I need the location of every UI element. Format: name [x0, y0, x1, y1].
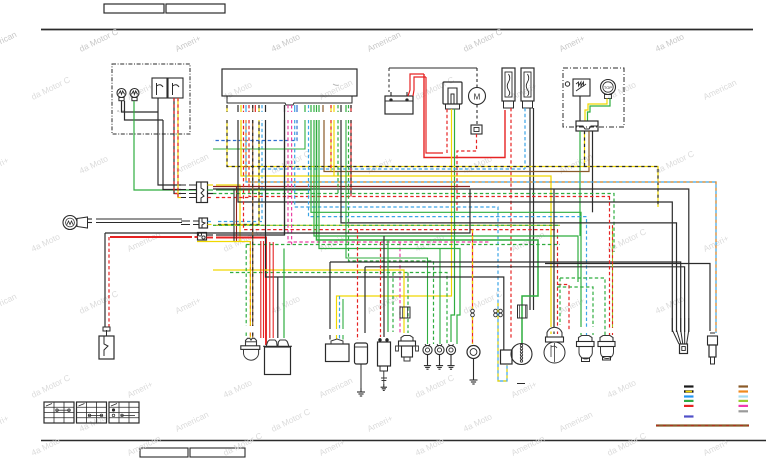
bus yellow-black: [227, 120, 658, 207]
svg-text:Ameri+: Ameri+: [557, 295, 586, 316]
bus green tail: [311, 120, 581, 335]
bus cyan tail: [309, 120, 587, 335]
fuse F1: [471, 125, 482, 134]
fuse holder FH1: [502, 68, 515, 108]
svg-text:Ameri+: Ameri+: [173, 33, 202, 54]
riser CDI green: [283, 249, 285, 339]
wire colour legend column 2: [739, 387, 749, 412]
flasher relay FR: [326, 339, 350, 362]
riser bulb3 olive: [612, 225, 614, 335]
svg-text:Ameri+: Ameri+: [173, 295, 202, 316]
wire unit green down: [579, 131, 581, 236]
wire lamp2 green: [134, 101, 197, 190]
indicator lamp L2: [130, 89, 139, 101]
wire relay yellow: [337, 109, 452, 340]
svg-text:da Motor C: da Motor C: [269, 406, 311, 433]
wire colour legend column 1: [684, 387, 694, 417]
CN2 yellow out: [208, 120, 260, 225]
bus yellow mid: [197, 241, 251, 243]
bus green big: [317, 120, 539, 344]
wire switch black b: [163, 120, 181, 190]
condenser ground: [357, 388, 365, 396]
wire unit brown down: [324, 120, 589, 172]
svg-text:4a Moto: 4a Moto: [269, 293, 301, 316]
ignition coil IC: [573, 79, 590, 96]
wire coil down black: [579, 96, 581, 121]
wire lamp yellow: [585, 99, 607, 122]
bus magenta long: [288, 120, 490, 242]
svg-text:da Motor C: da Motor C: [29, 74, 71, 101]
wire FH2 blue dash: [524, 108, 526, 169]
svg-text:da Motor C: da Motor C: [461, 26, 503, 53]
bus green B: [314, 120, 578, 282]
starter relay SR: [443, 82, 462, 109]
pilot lamp TOP: [601, 80, 616, 99]
meter unit: [511, 344, 532, 365]
svg-text:Ameri+: Ameri+: [557, 33, 586, 54]
connector CN2: [199, 218, 208, 228]
bus green grounds1: [346, 120, 428, 344]
svg-text:4a Moto: 4a Moto: [653, 31, 685, 54]
bus blue short: [213, 120, 297, 141]
main switch connector MS: [99, 327, 114, 359]
wire relay green: [451, 109, 455, 342]
wire switch black a: [157, 98, 159, 112]
svg-text:4a Moto: 4a Moto: [413, 435, 445, 458]
svg-text:American: American: [173, 151, 210, 176]
svg-text:da Motor C: da Motor C: [605, 226, 647, 253]
riser CDI red pair: [261, 241, 264, 338]
wire fuse red dash: [457, 134, 477, 212]
headlight HL: [63, 216, 88, 230]
svg-text:American: American: [317, 77, 354, 102]
svg-text:American: American: [0, 29, 18, 54]
fuse holder FH2: [521, 68, 534, 108]
wire horn cyan U: [498, 303, 507, 381]
horn bullet connectors: [494, 309, 503, 317]
bus green dash mid: [213, 194, 614, 253]
tail bulb B2: [544, 327, 565, 363]
coil2 plug tip: [381, 378, 387, 390]
bus yellow main: [241, 120, 551, 334]
riser CDI black: [277, 277, 279, 338]
riser condenser black: [364, 267, 366, 333]
bus dark red: [213, 187, 470, 242]
coil unit C2: [378, 338, 391, 378]
riser flasher cyan: [339, 296, 341, 340]
svg-text:da Motor C: da Motor C: [413, 372, 455, 399]
meter dash mark: [517, 383, 525, 385]
riser rk351: [350, 120, 352, 197]
bus black CDI: [266, 120, 504, 350]
bus green upper: [213, 120, 305, 149]
svg-text:4a Moto: 4a Moto: [221, 79, 253, 102]
condenser CD: [355, 343, 368, 388]
riser bulb1 brown: [252, 120, 254, 338]
CN3 left red: [110, 236, 198, 238]
riser gd338: [337, 120, 339, 194]
bus cyan-orange: [246, 120, 716, 333]
wire main switch red dash: [108, 237, 110, 327]
wire lamp1 black: [122, 101, 159, 112]
unit connector CN: [576, 121, 598, 131]
bulb B3: [577, 336, 595, 362]
sensor connector top: [400, 307, 410, 318]
label sw: [117, 108, 125, 113]
CN2 cyan out: [208, 120, 263, 222]
svg-text:American: American: [0, 291, 18, 316]
fan-out harness wires: [672, 318, 689, 344]
svg-text:American: American: [125, 433, 162, 458]
bus green grounds2: [349, 120, 434, 344]
pin table T3: [109, 402, 139, 423]
turn signal bulb B1: [241, 338, 260, 360]
bus red dash mid: [249, 120, 610, 197]
bus green grounds3: [439, 249, 441, 345]
svg-text:American: American: [557, 409, 594, 434]
svg-text:Ameri+: Ameri+: [509, 379, 538, 400]
CN3 right black: [207, 105, 285, 235]
switch housing box: [112, 64, 190, 134]
bus black fan5: [213, 189, 689, 332]
svg-text:4a Moto: 4a Moto: [605, 377, 637, 400]
wire lamp black 2: [125, 101, 164, 120]
CN3 left black: [107, 232, 198, 234]
riser CDI reds: [270, 242, 273, 338]
bottom rule: [41, 440, 766, 442]
svg-text:da Motor C: da Motor C: [221, 430, 263, 457]
bus blue dash horn: [295, 120, 498, 303]
svg-text:4a Moto: 4a Moto: [269, 31, 301, 54]
CN2 left stubs: [181, 221, 199, 225]
riser bulb2 black: [553, 189, 555, 334]
svg-text:da Motor C: da Motor C: [605, 430, 647, 457]
svg-text:4a Moto: 4a Moto: [29, 231, 61, 254]
ring terminal G1: [423, 344, 432, 369]
svg-text:Ameri+: Ameri+: [365, 155, 394, 176]
svg-text:4a Moto: 4a Moto: [29, 435, 61, 458]
svg-text:American: American: [701, 77, 738, 102]
connector CN1: [197, 182, 208, 203]
svg-text:American: American: [365, 29, 402, 54]
svg-text:Ameri+: Ameri+: [365, 413, 394, 434]
svg-text:Ameri+: Ameri+: [0, 155, 10, 176]
bus yellow low: [213, 270, 404, 333]
wire FH1 red dash: [510, 108, 512, 340]
bus black ignition: [105, 120, 470, 235]
ring terminal G3: [446, 344, 455, 369]
indicator lamp L1: [117, 89, 126, 101]
riser flasher black: [329, 262, 331, 340]
bus red dash low: [244, 120, 558, 334]
CN3 right red: [207, 238, 267, 346]
top rule: [41, 29, 753, 31]
wire headlight pair: [88, 219, 183, 223]
wire FH2 black pair: [530, 108, 534, 310]
main harness box: [222, 69, 357, 105]
svg-text:da Motor C: da Motor C: [221, 226, 263, 253]
bus green D: [319, 120, 460, 344]
wire unit yellow-black down: [584, 131, 586, 167]
riser bulb3 red: [609, 197, 611, 336]
riser ring main: [472, 230, 474, 344]
bus cyan fuse: [262, 168, 525, 170]
battery feed top line: [389, 68, 477, 92]
fuel pump unit FP: [396, 336, 419, 362]
coil terminal dot: [565, 82, 569, 86]
bus olive dash: [213, 224, 560, 226]
meter connector: [518, 305, 528, 318]
ignition unit box: [563, 68, 624, 127]
wire battery positive red: [408, 74, 426, 96]
resistor unit: [501, 350, 513, 364]
svg-text:American: American: [509, 433, 546, 458]
bus black fan4: [365, 267, 685, 332]
svg-text:4a Moto: 4a Moto: [461, 411, 493, 434]
wire starter motor dash up: [476, 68, 478, 88]
footer box 2: [190, 448, 245, 457]
wire switch yellow-red: [178, 98, 181, 198]
svg-text:TOP: TOP: [604, 85, 612, 90]
bus green dash B: [230, 273, 447, 345]
wire relay red dash: [446, 109, 448, 153]
svg-text:M: M: [474, 93, 481, 102]
wire motor dash down: [476, 105, 478, 126]
riser flasher green: [342, 299, 344, 340]
ring terminal main: [467, 346, 480, 385]
CN1 right stub wires: [208, 185, 312, 242]
svg-text:da Motor C: da Motor C: [653, 148, 695, 175]
bus black fan1: [238, 120, 672, 332]
header box 2: [166, 4, 225, 13]
bus black fan3: [330, 262, 681, 332]
wire main switch black: [104, 233, 106, 327]
header box 1: [104, 4, 164, 13]
switch S1: [152, 78, 167, 98]
bus green dash A: [246, 244, 560, 246]
svg-text:da Motor C: da Motor C: [29, 372, 71, 399]
riser yr: [330, 120, 332, 172]
riser y334: [333, 120, 335, 176]
svg-text:American: American: [317, 375, 354, 400]
fan-out connector: [680, 344, 688, 354]
wire lamp green: [588, 99, 611, 122]
bus green dash tail3: [560, 278, 605, 335]
harness connector stubs: [227, 105, 351, 112]
svg-text:4a Moto: 4a Moto: [221, 377, 253, 400]
svg-text:American: American: [509, 229, 546, 254]
svg-text:da Motor C: da Motor C: [269, 148, 311, 175]
svg-text:American: American: [173, 409, 210, 434]
switch S2: [168, 78, 183, 98]
ring terminal G2: [435, 344, 444, 369]
svg-text:da Motor C: da Motor C: [77, 288, 119, 315]
bulb B4: [598, 336, 615, 361]
bus green dash tail2: [557, 285, 593, 336]
pin table T1: [44, 402, 74, 423]
svg-text:Ameri+: Ameri+: [125, 379, 154, 400]
wire battery red drop: [424, 74, 505, 158]
wire unit black down: [592, 131, 594, 212]
svg-text:Ameri+: Ameri+: [0, 413, 10, 434]
svg-text:4a Moto: 4a Moto: [461, 153, 493, 176]
riser condenser red: [357, 230, 359, 340]
wire switch red-black: [174, 98, 181, 194]
CN1 left stubs: [181, 185, 197, 198]
pin table T2: [77, 402, 107, 423]
legend brown rule: [656, 424, 749, 426]
wire switch down a: [158, 112, 181, 185]
riser coil2 wires: [381, 236, 385, 337]
bus black plug: [545, 264, 710, 332]
plug connector PC: [708, 333, 718, 364]
svg-text:4a Moto: 4a Moto: [77, 153, 109, 176]
riser pump green: [388, 240, 408, 333]
svg-text:da Motor C: da Motor C: [77, 26, 119, 53]
riser bulb1 yellow: [249, 242, 251, 338]
ring main inline connector: [471, 309, 475, 317]
riser bulb1 green dash: [245, 245, 247, 338]
footer box 1: [140, 448, 188, 457]
starter motor M: [469, 88, 486, 105]
CDI unit: [263, 340, 292, 375]
battery BT1: [385, 92, 413, 114]
connector CN3: [198, 233, 207, 241]
riser magenta pump: [292, 120, 400, 333]
bus black fan2: [341, 120, 677, 332]
